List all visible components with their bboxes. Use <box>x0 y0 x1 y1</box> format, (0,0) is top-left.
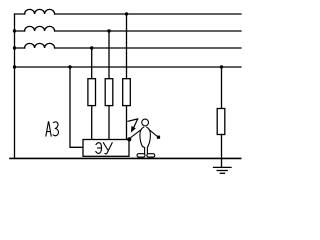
ground symbol bar 1 <box>214 166 232 168</box>
wire phase line L1 <box>15 13 242 15</box>
node L1 tap junction <box>125 12 128 15</box>
person right foot <box>147 154 155 157</box>
wire F1 to box <box>126 106 128 140</box>
enclosure box EU <box>83 140 129 157</box>
node bus-L3 junction <box>13 46 16 49</box>
wire phase line L3 <box>15 47 242 49</box>
wire tap from L2 down <box>108 31 110 79</box>
wire F2 to box <box>108 106 110 140</box>
wire tap from L1 down <box>126 14 128 79</box>
wire tap from L3 down <box>91 48 93 79</box>
node L2 tap junction <box>107 29 110 32</box>
wire F3 to box <box>91 106 93 140</box>
fuse F2 <box>105 79 113 106</box>
wire N right tap down <box>221 67 223 109</box>
resistor grounding <box>217 109 225 135</box>
person left arm to touch point <box>130 130 141 138</box>
wire N tap down and right to box <box>70 67 83 147</box>
label A3 <box>46 122 59 136</box>
label EU (Cyrillic) <box>96 143 112 154</box>
node touch point at box corner <box>127 137 131 141</box>
person left foot <box>137 154 145 157</box>
person right hand contact square <box>157 136 160 139</box>
node N right tap junction <box>220 65 223 68</box>
wire resistor to earth <box>221 135 223 168</box>
wire left vertical bus <box>14 14 16 158</box>
wire phase line L2 <box>15 30 242 32</box>
inductor coil on L3 <box>25 43 55 48</box>
fuse F1 <box>123 79 131 106</box>
fuse F3 <box>88 79 96 106</box>
wire neutral line N <box>15 66 242 68</box>
node L3 tap junction <box>90 46 93 49</box>
node bus-L2 junction <box>13 29 16 32</box>
node N left tap junction <box>68 65 71 68</box>
arrow touch indicator <box>128 119 138 128</box>
ground symbol bar 2 <box>217 170 227 172</box>
person body <box>140 127 151 146</box>
wire earth/floor line <box>10 157 241 159</box>
person right arm <box>149 130 157 137</box>
person legs <box>142 146 148 154</box>
node bus-N junction <box>13 65 16 68</box>
inductor coil on L1 <box>25 9 55 14</box>
inductor coil on L2 <box>25 26 55 31</box>
ground symbol bar 3 <box>220 172 224 174</box>
person head <box>142 119 149 126</box>
